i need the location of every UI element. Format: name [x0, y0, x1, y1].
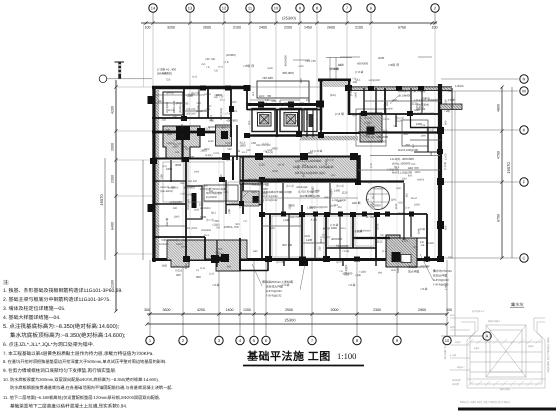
svg-text:1B0: 1B0 [253, 250, 258, 253]
svg-text:4@2.7: 4@2.7 [457, 366, 465, 369]
svg-text:2(3(页: 2(3(页 [452, 382, 460, 386]
svg-text:100/600: 100/600 [159, 243, 169, 246]
svg-text:基础平法施 工图: 基础平法施 工图 [246, 350, 331, 363]
svg-text:L10@200: L10@200 [170, 200, 183, 204]
svg-text:2400: 2400 [259, 26, 267, 30]
svg-text:QL1: QL1 [412, 143, 415, 148]
svg-text:1800: 1800 [204, 148, 210, 151]
svg-text:590: 590 [260, 199, 265, 203]
svg-text:400X800: 400X800 [373, 188, 384, 191]
svg-text:3600: 3600 [163, 308, 171, 312]
svg-text:3. 墙体及柱定位详建施—05.: 3. 墙体及柱定位详建施—05. [3, 305, 66, 312]
svg-text:JL1: JL1 [247, 120, 251, 125]
svg-text:400X800: 400X800 [383, 108, 393, 111]
svg-text:500: 500 [398, 201, 403, 204]
svg-text:JL1(1): JL1(1) [262, 142, 269, 145]
svg-text:L10@200: L10@200 [369, 79, 381, 82]
svg-text:2000: 2000 [232, 110, 238, 113]
svg-text:0.025: 0.025 [213, 152, 220, 155]
svg-text:4700: 4700 [497, 151, 501, 159]
svg-text:2000(1A0): 2000(1A0) [220, 108, 223, 120]
svg-text:(1A): (1A) [330, 93, 336, 97]
svg-text:400X800: 400X800 [331, 237, 343, 241]
svg-text:(1A): (1A) [194, 208, 199, 211]
svg-text:2100: 2100 [233, 26, 241, 30]
svg-text:2300: 2300 [373, 308, 381, 312]
svg-text:JL1: JL1 [252, 91, 255, 96]
svg-text:1400: 1400 [226, 308, 234, 312]
svg-text:2.470: 2.470 [445, 153, 448, 160]
svg-text:1B0: 1B0 [402, 177, 407, 180]
svg-text:5. 点注筏基底标高为:−8.350(绝对标高:14.60: 5. 点注筏基底标高为:−8.350(绝对标高:14.600); [3, 323, 120, 330]
svg-text:基础梁至地下二层高度以秸秆混凝土上拉通,压实系数0.94.: 基础梁至地下二层高度以秸秆混凝土上拉通,压实系数0.94. [10, 404, 127, 409]
svg-text:1400: 1400 [182, 102, 189, 106]
svg-text:4. 基础大样图详结施—04.: 4. 基础大样图详结施—04. [3, 314, 61, 321]
svg-text:5750: 5750 [398, 26, 406, 30]
left dimension line [99, 80, 152, 313]
svg-text:250: 250 [173, 143, 178, 146]
svg-text:A: A [238, 149, 241, 153]
elevator footing boxes [252, 109, 358, 141]
svg-text:JL1(1): JL1(1) [205, 154, 212, 157]
svg-text:1800: 1800 [174, 216, 180, 219]
svg-text:1B0 700: 1B0 700 [408, 166, 419, 170]
annotation speckle [158, 55, 430, 277]
svg-text:500: 500 [272, 99, 277, 103]
svg-text:1125: 1125 [396, 119, 402, 122]
svg-text:250: 250 [319, 246, 322, 251]
svg-text:590: 590 [180, 117, 185, 121]
svg-text:600 600: 600 600 [188, 180, 198, 183]
svg-text:各向加大样图: 各向加大样图 [252, 183, 269, 187]
svg-text:400: 400 [190, 155, 195, 159]
svg-text:7.8 级: 7.8 级 [420, 287, 428, 291]
svg-text:1900: 1900 [200, 215, 207, 219]
svg-text:2000: 2000 [111, 143, 115, 151]
svg-text:7.8 级: 7.8 级 [282, 283, 290, 287]
svg-text:7. 本工程基础以第4层黄色粉质黏土层作为持力层,承载力特: 7. 本工程基础以第4层黄色粉质黏土层作为持力层,承载力特征值为700KPa. [3, 351, 154, 356]
svg-text:M470: M470 [398, 212, 405, 215]
svg-text:6@2: 6@2 [474, 347, 480, 350]
svg-text:T-8Y6@D32: T-8Y6@D32 [263, 199, 278, 202]
svg-text:500: 500 [413, 246, 418, 249]
svg-text:1B0 颗: 1B0 颗 [165, 218, 169, 226]
svg-text:1400: 1400 [306, 238, 313, 242]
svg-text:E(+M200: E(+M200 [206, 196, 217, 199]
svg-text:590: 590 [209, 190, 214, 193]
svg-text:1125: 1125 [377, 240, 383, 244]
svg-text:(7.8: (7.8 [382, 180, 387, 183]
svg-text:1800: 1800 [288, 203, 295, 207]
svg-text:J1B: J1B [161, 119, 166, 122]
svg-text:4500: 4500 [378, 56, 385, 60]
svg-text:JL1(1): JL1(1) [310, 218, 317, 221]
svg-text:1200: 1200 [243, 308, 251, 312]
svg-text:1125: 1125 [342, 190, 348, 194]
svg-text:B-8Y6@D32: B-8Y6@D32 [263, 195, 278, 198]
svg-text:7.8: 7.8 [265, 98, 269, 102]
svg-text:745 745: 745 745 [305, 59, 316, 63]
svg-text:8@2 8@2: 8@2 8@2 [488, 320, 500, 323]
svg-text:1B0: 1B0 [206, 108, 211, 111]
svg-text:400: 400 [220, 174, 223, 179]
svg-text:1400: 1400 [334, 189, 341, 193]
right dimension lines [441, 79, 519, 336]
leader lines [240, 96, 433, 290]
svg-text:500: 500 [197, 102, 202, 105]
svg-text:J1B: J1B [319, 238, 323, 243]
svg-text:590: 590 [405, 193, 408, 198]
svg-text:1800: 1800 [415, 171, 421, 174]
svg-text:1400: 1400 [414, 109, 420, 112]
svg-text:8. 在基坑开挖时须把独基垫层边开挖深度大于500mm,单: 8. 在基坑开挖时须把独基垫层边开挖深度大于500mm,单点试压平整对周边地基层… [3, 359, 166, 364]
svg-text:1125: 1125 [209, 272, 215, 275]
svg-text:1.8A%: 1.8A% [455, 84, 464, 88]
svg-text:1125: 1125 [192, 76, 198, 79]
svg-text:400X800: 400X800 [184, 186, 196, 190]
interior walls lower band [155, 183, 427, 271]
svg-text:(7.8: (7.8 [216, 251, 219, 256]
notes block [3, 279, 173, 409]
svg-text:7.8: 7.8 [206, 66, 210, 69]
svg-text:2000: 2000 [262, 187, 269, 191]
svg-text:1400: 1400 [298, 65, 304, 68]
svg-text:1B0: 1B0 [430, 151, 433, 156]
svg-text:JZL3: JZL3 [382, 130, 388, 133]
svg-text:M4(1) | 4(B) 1(F) 4(1) *M(4) 4: M4(1) | 4(B) 1(F) 4(1) *M(4) 4(7) M(1) [460, 400, 510, 404]
svg-text:400: 400 [338, 206, 343, 209]
svg-text:B-8Y6@D32: B-8Y6@D32 [433, 278, 449, 282]
svg-text:1125: 1125 [259, 163, 265, 167]
svg-text:100: 100 [448, 256, 453, 259]
svg-text:900: 900 [247, 149, 252, 152]
svg-text:1125: 1125 [180, 124, 184, 130]
svg-text:3000: 3000 [231, 101, 237, 104]
svg-text:10. 防水底板厚度为300mm,双层双向配筋4Φ200,底: 10. 防水底板厚度为300mm,双层双向配筋4Φ200,底标高为:−8.350… [3, 377, 159, 382]
svg-text:200 200: 200 200 [186, 113, 196, 116]
svg-text:(4)B: (4)B [355, 273, 360, 277]
svg-text:QL1: QL1 [211, 212, 216, 215]
svg-text:6. 点注JZL*,JLL*,JQL*为洞口处梁为错中.: 6. 点注JZL*,JLL*,JQL*为洞口处梁为错中. [3, 341, 94, 348]
svg-text:(4)B: (4)B [162, 264, 167, 268]
svg-text:(R1+M200): (R1+M200) [160, 190, 173, 193]
svg-text:M4T8: M4T8 [396, 265, 400, 273]
svg-text:JL1(1): JL1(1) [265, 150, 273, 154]
vertical grid lines [150, 23, 447, 337]
svg-text:4@2: 4@2 [528, 345, 534, 348]
svg-text:2600: 2600 [327, 26, 335, 30]
svg-text:JL1(1): JL1(1) [416, 105, 424, 109]
svg-text:QL1: QL1 [352, 114, 357, 117]
svg-text:7.8 级: 7.8 级 [342, 249, 349, 253]
svg-text:JZL3: JZL3 [204, 234, 210, 237]
svg-text:M4T8: M4T8 [176, 243, 183, 246]
svg-text:(1A): (1A) [331, 174, 336, 177]
svg-text:0.025: 0.025 [175, 268, 182, 272]
svg-text:400: 400 [173, 116, 178, 119]
beams right zone [318, 132, 360, 134]
svg-text:500: 500 [235, 223, 240, 226]
svg-text:725: 725 [307, 165, 312, 168]
plan outer walls [152, 79, 462, 262]
svg-text:(1A): (1A) [218, 65, 223, 68]
svg-text:基础梁m加 腋大样图: 基础梁m加 腋大样图 [398, 89, 425, 93]
svg-text:M478,L08@200: M478,L08@200 [398, 148, 418, 152]
svg-text:300: 300 [144, 308, 150, 312]
svg-text:900: 900 [209, 118, 214, 122]
svg-text:1800: 1800 [200, 187, 207, 191]
svg-text:10: 10 [445, 338, 450, 343]
svg-text:基础梁500mm上皮标高: 基础梁500mm上皮标高 [248, 178, 277, 182]
svg-text:900: 900 [308, 151, 313, 155]
svg-text:(7.8 级: (7.8 级 [349, 87, 353, 96]
svg-text:B-8Y6@D32: B-8Y6@D32 [266, 289, 282, 293]
interior walls top band [152, 88, 440, 137]
svg-text:10: 10 [274, 5, 279, 10]
svg-text:B4: B4 [296, 119, 300, 123]
svg-text:1450: 1450 [304, 26, 312, 30]
svg-text:L10@200: L10@200 [387, 168, 400, 172]
svg-text:防水底板钢筋按贯通基底拉通,在各基础范围内不锚固配筋拉通,与: 防水底板钢筋按贯通基底拉通,在各基础范围内不锚固配筋拉通,与各基底混凝土浇筑一起… [10, 385, 173, 390]
svg-text:3000: 3000 [417, 228, 420, 234]
svg-text:725: 725 [166, 78, 171, 82]
svg-text:1B0: 1B0 [378, 272, 383, 275]
svg-text:7.8: 7.8 [243, 220, 247, 223]
right axis circles [483, 75, 528, 340]
svg-text:900: 900 [196, 275, 201, 279]
svg-text:250: 250 [199, 202, 204, 206]
svg-text:4250: 4250 [197, 308, 205, 312]
svg-text:C: C [523, 255, 526, 260]
svg-text:590: 590 [425, 97, 430, 101]
svg-text:1125: 1125 [402, 239, 408, 243]
svg-text:700: 700 [393, 125, 398, 128]
svg-text:2100: 2100 [355, 26, 363, 30]
svg-text:(7.8: (7.8 [382, 250, 387, 253]
svg-text:(4)B: (4)B [396, 187, 401, 190]
bottom-center-left hatch [205, 240, 247, 271]
svg-text:400: 400 [176, 273, 181, 277]
svg-text:2000: 2000 [224, 225, 231, 229]
svg-text:JZL3: JZL3 [338, 64, 344, 67]
svg-text:100: 100 [145, 26, 151, 30]
bottom axis circles [146, 336, 451, 344]
svg-text:3000: 3000 [421, 134, 427, 137]
svg-text:M4T8: M4T8 [377, 223, 380, 230]
svg-text:400: 400 [223, 191, 228, 194]
svg-text:1400: 1400 [428, 242, 434, 245]
svg-text:720,628: 720,628 [262, 76, 273, 80]
svg-text:300: 300 [446, 308, 452, 312]
svg-text:100/600: 100/600 [342, 272, 353, 276]
svg-text:1B0 颗: 1B0 颗 [352, 201, 361, 205]
svg-text:7.8级 顶: 7.8级 顶 [243, 64, 254, 68]
svg-text:(1A): (1A) [162, 165, 167, 168]
svg-text:4500: 4500 [445, 99, 448, 105]
svg-text:400X800: 400X800 [200, 207, 211, 210]
svg-text:100: 100 [448, 90, 453, 93]
svg-text:900: 900 [306, 99, 311, 102]
svg-text:0.025: 0.025 [355, 229, 362, 233]
svg-text:@7@2.6.7: @7@2.6.7 [472, 310, 485, 313]
columns [148, 85, 445, 262]
svg-text:2500: 2500 [285, 308, 293, 312]
svg-text:M4T8: M4T8 [323, 226, 331, 230]
svg-text:4800: 4800 [497, 104, 501, 112]
svg-text:1800: 1800 [337, 200, 343, 203]
svg-text:1400: 1400 [205, 229, 211, 232]
svg-text:L10@200: L10@200 [320, 236, 331, 239]
svg-text:1800: 1800 [278, 100, 282, 107]
svg-text:700 700: 700 700 [186, 108, 196, 111]
svg-text:1B0: 1B0 [302, 164, 307, 167]
hatched footing H1 left-mid [163, 126, 200, 159]
svg-text:J1B: J1B [420, 244, 425, 247]
svg-text:LQ@2: LQ@2 [217, 157, 225, 160]
svg-text:2000: 2000 [331, 308, 339, 312]
svg-text:(1A): (1A) [363, 134, 368, 138]
svg-text:2000: 2000 [262, 192, 268, 195]
svg-text:M4T8: M4T8 [185, 194, 192, 197]
svg-text:T-8Y6@D32: T-8Y6@D32 [266, 294, 282, 298]
right footing F3 [360, 113, 382, 142]
svg-text:1125: 1125 [180, 193, 186, 196]
circular tank [367, 187, 390, 210]
svg-text:3000: 3000 [272, 170, 278, 173]
svg-text:注:: 注: [3, 279, 9, 286]
svg-text:100/600: 100/600 [329, 68, 339, 71]
svg-text:集水坑底板顶标高为:−8.350(绝对标高:14.600);: 集水坑底板顶标高为:−8.350(绝对标高:14.600); [10, 332, 126, 339]
svg-text:(1A): (1A) [391, 198, 396, 202]
svg-text:590: 590 [221, 127, 226, 130]
extra interior walls [143, 57, 441, 271]
svg-text:590: 590 [386, 101, 389, 106]
svg-text:4200: 4200 [111, 106, 115, 114]
svg-text:LQ@2: LQ@2 [329, 188, 333, 197]
svg-text:2100: 2100 [111, 280, 115, 288]
svg-text:1. 独基、条形基础及筏板钢筋构造详11G101-3P60: 1. 独基、条形基础及筏板钢筋构造详11G101-3P60,69. [3, 287, 123, 294]
svg-text:处加大样图: 处加大样图 [433, 274, 447, 278]
svg-text:LJL2(2), 400X600: LJL2(2), 400X600 [390, 157, 414, 161]
svg-text:1125: 1125 [208, 140, 214, 143]
svg-text:加大样图: 加大样图 [408, 270, 419, 274]
svg-text:M4T8: M4T8 [205, 93, 212, 96]
svg-text:700: 700 [380, 234, 385, 237]
svg-text:590: 590 [161, 238, 166, 242]
svg-text:JL,700: JL,700 [366, 216, 374, 219]
svg-text:900: 900 [183, 145, 188, 148]
svg-text:J1B: J1B [300, 101, 305, 105]
svg-text:6700: 6700 [497, 214, 501, 222]
svg-text:400X800: 400X800 [357, 62, 369, 66]
svg-text:(7.8 级: (7.8 级 [355, 70, 364, 74]
svg-text:A.K.: A.K. [450, 314, 455, 317]
svg-text:7.8 级: 7.8 级 [212, 283, 220, 287]
svg-text:(7.8 级: (7.8 级 [443, 162, 447, 170]
svg-text:400,900): 400,900) [282, 71, 294, 75]
svg-text:2200: 2200 [284, 26, 292, 30]
svg-text:400: 400 [404, 132, 409, 136]
svg-text:B(4) 4(B): B(4) 4(B) [500, 388, 510, 391]
svg-text:(325(页: (325(页 [452, 378, 461, 382]
svg-text:集水坑: 集水坑 [511, 302, 524, 307]
svg-text:590 700: 590 700 [290, 216, 300, 219]
svg-text:250: 250 [173, 139, 178, 142]
central raft slab hatch [240, 157, 357, 184]
svg-text:JL1(1): JL1(1) [305, 112, 309, 120]
svg-text:1400: 1400 [416, 122, 423, 126]
svg-text:1800: 1800 [166, 167, 173, 171]
svg-text:250: 250 [251, 141, 256, 145]
svg-text:JLL2: JLL2 [371, 193, 375, 200]
svg-text:(7.8: (7.8 [405, 207, 410, 210]
svg-text:6400: 6400 [111, 222, 115, 230]
bottom-right hatch [386, 235, 417, 267]
svg-text:JZL3: JZL3 [219, 99, 225, 102]
top dimension line [141, 13, 438, 88]
svg-text:M4T8,L10@200 (Q)C: M4T8,L10@200 (Q)C [295, 171, 326, 175]
svg-text:7.8 级: 7.8 级 [348, 283, 356, 287]
svg-text:13: 13 [188, 5, 193, 10]
svg-text:25300: 25300 [284, 318, 296, 323]
sump pit detail [444, 302, 556, 411]
svg-text:3000: 3000 [175, 163, 182, 167]
svg-text:LQ@2: LQ@2 [160, 72, 168, 75]
svg-text:LQ@2: LQ@2 [225, 142, 233, 145]
svg-text:700: 700 [214, 219, 219, 223]
svg-text:400: 400 [408, 174, 413, 177]
svg-text:集水坑750mm: 集水坑750mm [433, 269, 453, 273]
svg-text:4(1)4(B) *(7): 4(1)4(B) *(7) [444, 345, 447, 360]
hatched block left-center [216, 125, 232, 146]
svg-text:11. 地下二层地面(−6.180板高处)仅设置配板垫层:1: 11. 地下二层地面(−6.180板高处)仅设置配板垫层:120mm厚砼板,8Φ… [3, 395, 160, 400]
svg-text:400X800: 400X800 [420, 265, 430, 268]
svg-text:250: 250 [299, 78, 303, 83]
svg-text:14: 14 [151, 5, 156, 10]
svg-text:(B 1/M800): (B 1/M800) [398, 94, 412, 98]
svg-text:(7.8: (7.8 [224, 60, 229, 64]
svg-text:1 4@-: 1 4@- [450, 354, 457, 357]
svg-text:B4: B4 [366, 197, 370, 201]
svg-text:100: 100 [432, 26, 438, 30]
top protrusion hatch [323, 81, 348, 87]
svg-text:1125: 1125 [267, 67, 273, 70]
svg-text:B4: B4 [190, 94, 194, 98]
svg-text:1800: 1800 [324, 166, 330, 169]
svg-text:250: 250 [420, 241, 425, 244]
svg-text:M: M [522, 88, 525, 93]
svg-text:100/600: 100/600 [338, 244, 349, 248]
svg-text:(7.8: (7.8 [226, 112, 231, 116]
svg-text:745 745: 745 745 [205, 57, 216, 61]
svg-text:1125: 1125 [304, 234, 310, 238]
svg-text:7.8级: 7.8级 [444, 109, 450, 113]
svg-text:4@2: 4@2 [455, 341, 461, 344]
svg-text:0.025: 0.025 [383, 118, 390, 121]
svg-text:590: 590 [159, 174, 163, 179]
svg-text:(7.8: (7.8 [370, 163, 373, 168]
svg-text:700: 700 [297, 165, 300, 170]
svg-text:M4T8: M4T8 [417, 179, 424, 182]
plan annotations [157, 53, 464, 298]
svg-text:(4)B: (4)B [324, 196, 329, 199]
svg-text:16070: 16070 [99, 194, 104, 206]
svg-text:L10@200: L10@200 [168, 187, 179, 190]
svg-text:400X800: 400X800 [226, 119, 238, 123]
svg-text:1:100: 1:100 [337, 351, 356, 361]
svg-text:(4)B: (4)B [228, 209, 231, 214]
svg-text:725: 725 [214, 70, 219, 73]
